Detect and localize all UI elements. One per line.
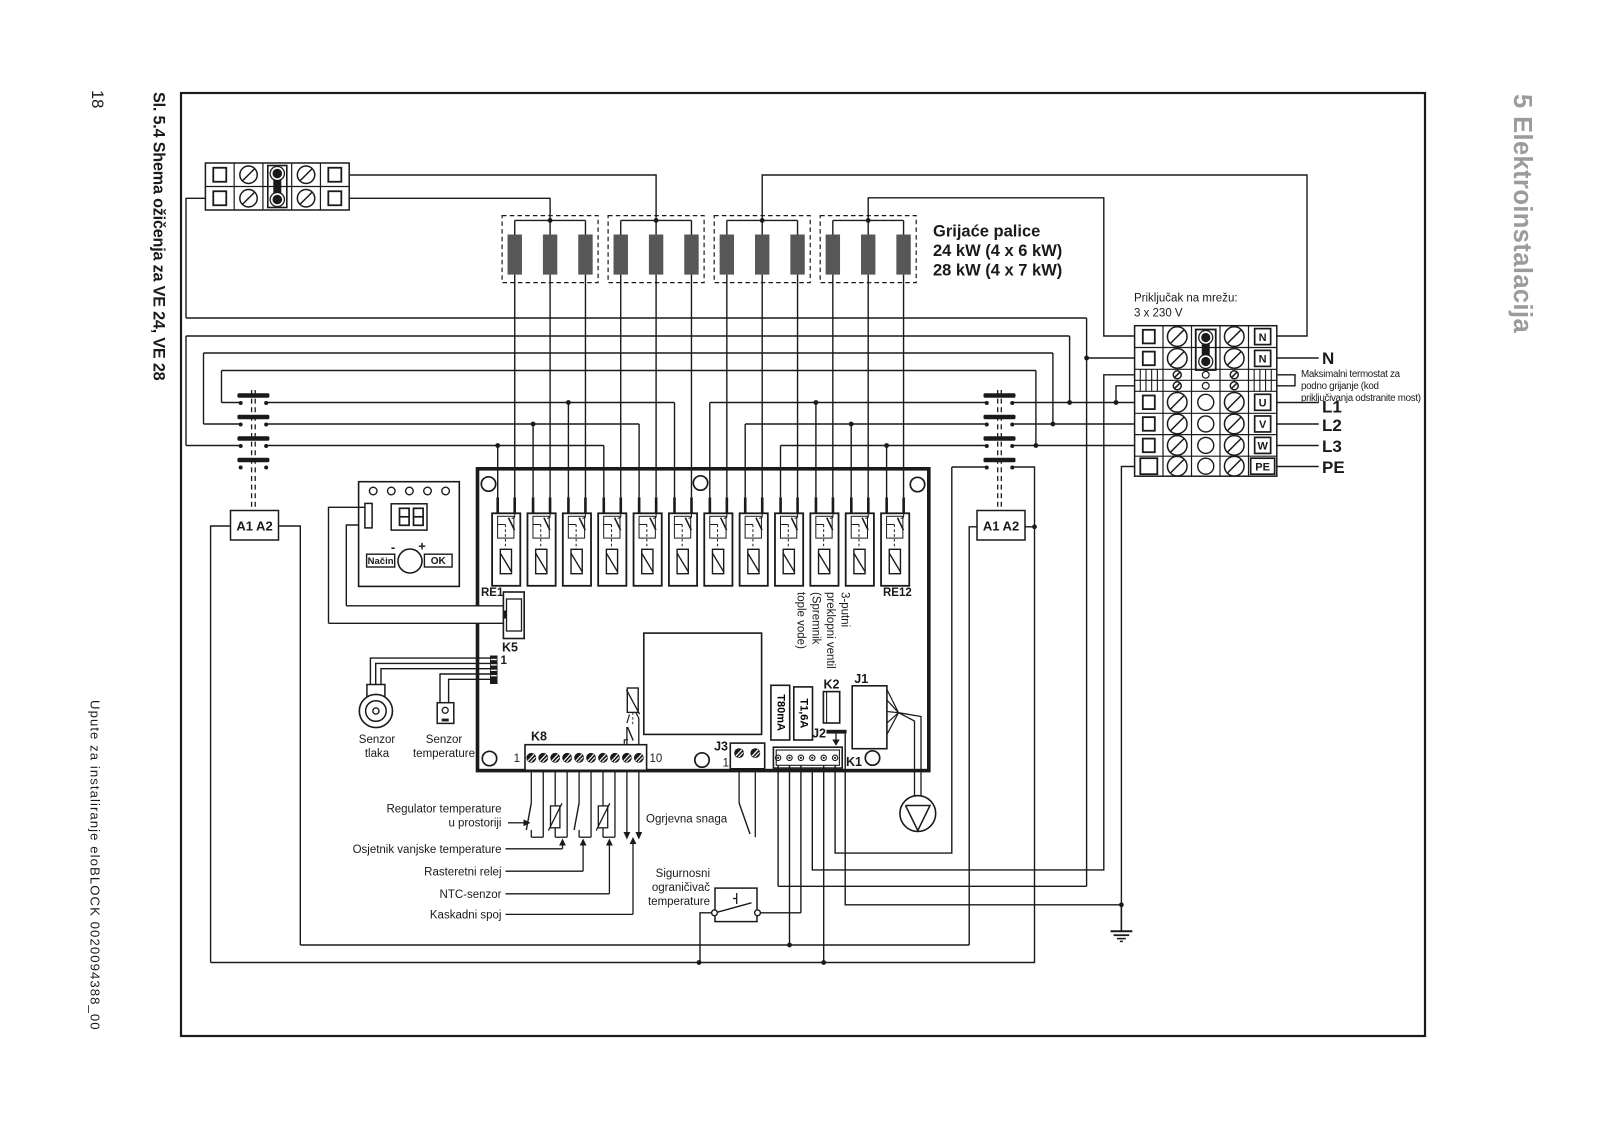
svg-text:1: 1 [723,758,729,770]
svg-text:Regulator temperature: Regulator temperature [386,804,501,816]
svg-text:PE: PE [1322,458,1345,477]
svg-text:Grijaće palice: Grijaće palice [933,223,1040,241]
svg-text:Sigurnosni: Sigurnosni [656,868,710,880]
svg-text:Senzor: Senzor [359,734,396,746]
svg-text:Osjetnik vanjske temperature: Osjetnik vanjske temperature [353,844,502,856]
svg-text:3-putni: 3-putni [839,592,851,627]
svg-text:ograničivač: ograničivač [652,882,710,894]
svg-text:Rasteretni relej: Rasteretni relej [424,867,501,879]
svg-text:Maksimalni termostat za: Maksimalni termostat za [1301,369,1401,380]
svg-text:Kaskadni spoj: Kaskadni spoj [430,910,502,922]
svg-text:L2: L2 [1322,416,1342,435]
svg-text:u prostoriji: u prostoriji [448,818,501,830]
svg-text:PE: PE [1255,461,1270,473]
svg-text:(Spremnik: (Spremnik [809,592,821,645]
svg-text:K8: K8 [531,730,547,744]
svg-text:W: W [1257,441,1268,453]
svg-text:+: + [418,539,426,554]
svg-text:tlaka: tlaka [365,748,390,760]
svg-text:Senzor: Senzor [426,734,463,746]
svg-text:1: 1 [501,655,508,667]
svg-text:Sl. 5.4 Shema ožičenja za VE 2: Sl. 5.4 Shema ožičenja za VE 24, VE 28 [150,92,168,381]
svg-text:10: 10 [650,753,663,765]
svg-text:3 x 230 V: 3 x 230 V [1134,308,1183,320]
svg-text:28 kW (4 x 7 kW): 28 kW (4 x 7 kW) [933,262,1062,280]
svg-text:J1: J1 [854,672,868,686]
svg-text:L3: L3 [1322,437,1342,456]
svg-text:Ogrjevna snaga: Ogrjevna snaga [646,814,728,826]
svg-text:N: N [1322,349,1334,368]
svg-text:N: N [1259,332,1267,344]
svg-text:preklopni ventil: preklopni ventil [824,592,836,669]
svg-text:N: N [1259,354,1267,366]
svg-text:J2: J2 [812,727,826,741]
svg-text:K2: K2 [824,678,840,692]
svg-text:podno grijanje (kod: podno grijanje (kod [1301,381,1379,392]
svg-text:temperature: temperature [648,896,710,908]
svg-text:K5: K5 [502,641,518,655]
svg-text:NTC-senzor: NTC-senzor [440,889,502,901]
svg-text:18: 18 [88,90,106,108]
svg-text:Priključak na mrežu:: Priključak na mrežu: [1134,293,1238,305]
svg-text:temperature: temperature [413,748,475,760]
svg-text:1: 1 [514,753,520,765]
svg-text:K1: K1 [846,755,862,769]
svg-text:RE12: RE12 [883,587,912,599]
svg-text:5 Elektroinstalacija: 5 Elektroinstalacija [1508,94,1536,333]
svg-text:T80mA: T80mA [775,694,787,731]
svg-text:-: - [391,540,395,555]
svg-text:tople vode): tople vode) [795,592,807,649]
svg-text:A1 A2: A1 A2 [983,519,1019,534]
svg-text:priključivanja odstranite most: priključivanja odstranite most) [1301,393,1421,404]
svg-text:Način: Način [368,556,394,567]
svg-text:Upute za instaliranje eloBLOCK: Upute za instaliranje eloBLOCK 002009438… [88,700,103,1031]
svg-text:A1 A2: A1 A2 [236,519,272,534]
svg-text:T1,6A: T1,6A [798,698,810,728]
svg-text:V: V [1259,419,1267,431]
svg-text:24 kW (4 x 6 kW): 24 kW (4 x 6 kW) [933,242,1062,260]
svg-text:J3: J3 [714,740,728,754]
svg-text:RE1: RE1 [481,587,504,599]
svg-text:U: U [1259,398,1267,410]
svg-text:OK: OK [431,556,447,567]
